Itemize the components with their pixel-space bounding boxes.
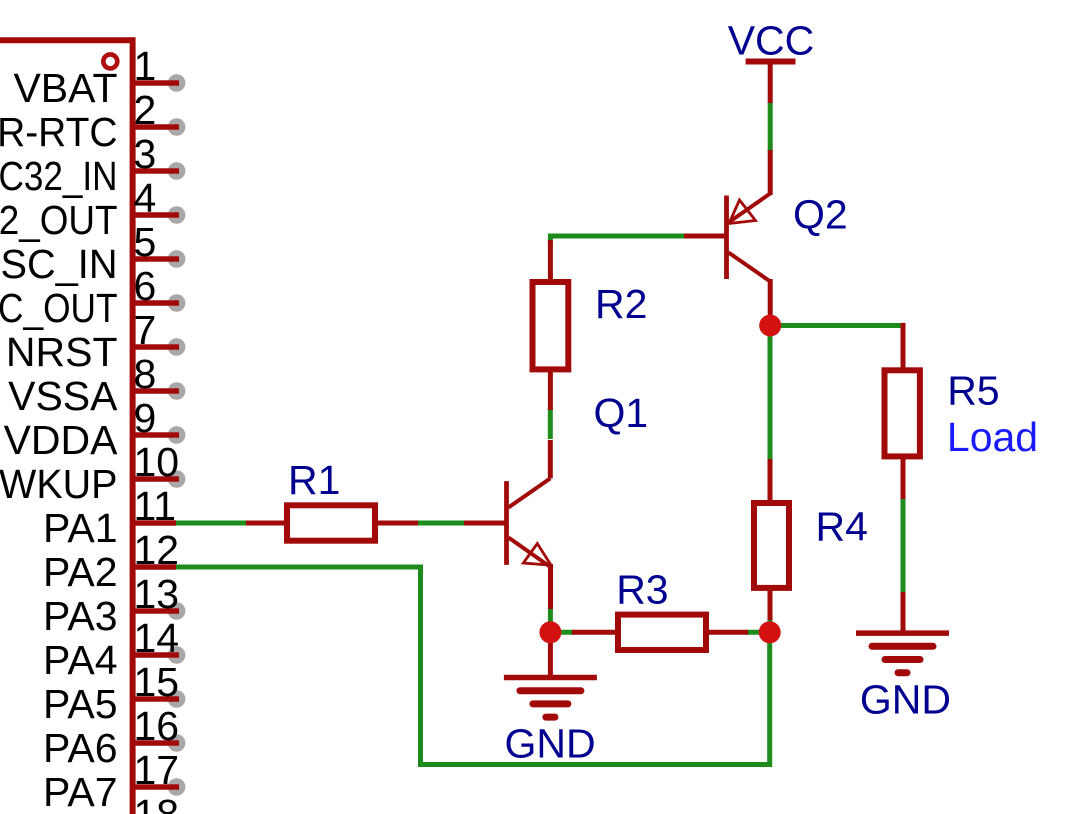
svg-text:4: 4 (134, 175, 157, 221)
svg-text:Q2: Q2 (793, 192, 848, 238)
svg-text:Load: Load (947, 414, 1038, 460)
svg-text:PC14-OSC32_IN: PC14-OSC32_IN (0, 153, 118, 199)
svg-text:5: 5 (134, 219, 157, 265)
svg-text:6: 6 (134, 263, 157, 309)
svg-text:3: 3 (134, 131, 157, 177)
svg-text:9: 9 (134, 395, 157, 441)
svg-text:R1: R1 (288, 457, 340, 503)
svg-text:18: 18 (134, 791, 180, 814)
svg-text:GND: GND (505, 720, 596, 766)
svg-text:NRST: NRST (6, 329, 118, 375)
svg-text:16: 16 (134, 703, 180, 749)
svg-text:8: 8 (134, 351, 157, 397)
svg-text:PD0-OSC_IN: PD0-OSC_IN (0, 241, 118, 287)
svg-text:PA2: PA2 (43, 549, 117, 595)
svg-text:15: 15 (134, 659, 180, 705)
svg-text:PA4: PA4 (43, 637, 117, 683)
svg-text:R2: R2 (595, 281, 647, 327)
svg-text:17: 17 (134, 747, 180, 793)
svg-text:PD1-OSC_OUT: PD1-OSC_OUT (0, 285, 117, 331)
svg-text:14: 14 (134, 615, 180, 661)
svg-text:GND: GND (860, 676, 951, 722)
svg-text:R4: R4 (816, 503, 868, 549)
svg-text:13: 13 (134, 571, 180, 617)
svg-text:PC15-OSC32_OUT: PC15-OSC32_OUT (0, 197, 118, 243)
svg-text:PA7: PA7 (43, 769, 117, 814)
svg-text:VDDA: VDDA (4, 417, 119, 463)
svg-text:VCC: VCC (728, 18, 815, 64)
svg-text:1: 1 (134, 43, 157, 89)
svg-text:PA6: PA6 (43, 725, 117, 771)
svg-text:11: 11 (134, 483, 177, 529)
svg-text:10: 10 (134, 439, 180, 485)
svg-text:12: 12 (134, 527, 180, 573)
svg-text:2: 2 (134, 87, 157, 133)
svg-text:R5: R5 (947, 368, 999, 414)
svg-text:PA0-WKUP: PA0-WKUP (0, 461, 118, 507)
svg-text:VSSA: VSSA (8, 373, 118, 419)
svg-text:PC13-TAMPER-RTC: PC13-TAMPER-RTC (0, 109, 118, 155)
svg-text:PA1: PA1 (43, 505, 117, 551)
svg-text:R3: R3 (616, 567, 668, 613)
svg-text:Q1: Q1 (594, 390, 649, 436)
svg-text:VBAT: VBAT (13, 65, 117, 111)
svg-text:PA3: PA3 (43, 593, 117, 639)
svg-text:PA5: PA5 (43, 681, 117, 727)
svg-text:7: 7 (134, 307, 157, 353)
